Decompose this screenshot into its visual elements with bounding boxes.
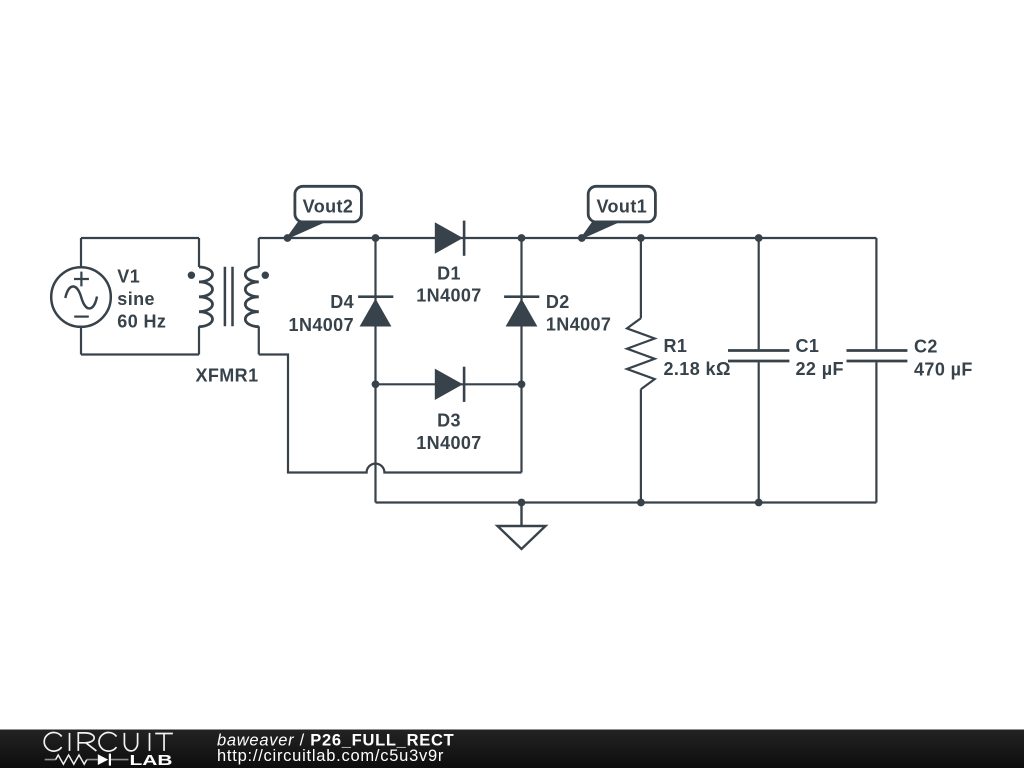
net flag Vout1: [582, 186, 656, 238]
wire secondary top stub: [258, 238, 260, 267]
transformer XFMR1 primary winding: [199, 267, 213, 327]
svg-text:C1: C1: [796, 336, 820, 356]
node D3 anode junction: [372, 380, 380, 388]
transformer primary phase dot: [188, 272, 195, 279]
wire bottom rail: [376, 501, 877, 503]
ground: [498, 503, 546, 550]
V1 plus sign: [74, 272, 89, 287]
svg-text:D3: D3: [437, 410, 461, 430]
node Vout2 junction: [284, 234, 292, 242]
node C1 top junction: [755, 234, 763, 242]
svg-text:LAB: LAB: [130, 752, 173, 768]
wire primary bottom stub: [198, 326, 200, 354]
svg-text:D1: D1: [437, 264, 461, 284]
diode D1: [435, 221, 466, 256]
wire V1 bottom: [81, 353, 199, 355]
net flag Vout2: [288, 186, 362, 238]
capacitor C1 plates: [728, 351, 789, 362]
wire C2 leads: [875, 238, 877, 503]
logo diode bar: [109, 754, 111, 766]
node C1 bottom junction: [755, 499, 763, 507]
wire D4 branch vertical: [374, 238, 376, 503]
V1 sine squiggle: [65, 286, 97, 308]
svg-text:D4: D4: [330, 292, 354, 312]
svg-text:22 µF: 22 µF: [796, 359, 844, 379]
footer bar: [0, 730, 1024, 768]
wire C1 leads: [758, 238, 760, 503]
labels: [117, 264, 973, 454]
diode D2: [504, 295, 539, 326]
svg-text:1N4007: 1N4007: [546, 315, 611, 335]
transformer core lines: [225, 267, 233, 327]
wire secondary bottom return with hop: [259, 355, 522, 473]
logo diode triangle: [98, 754, 108, 765]
capacitor C2 plates: [847, 351, 908, 362]
svg-text:2.18 kΩ: 2.18 kΩ: [664, 359, 731, 379]
node D4 cathode / top rail junction: [372, 234, 380, 242]
svg-text:470 µF: 470 µF: [914, 359, 973, 379]
V1 minus sign: [74, 316, 89, 318]
voltage source V1 circle: [51, 267, 111, 327]
svg-text:1N4007: 1N4007: [416, 433, 481, 453]
svg-text:1N4007: 1N4007: [416, 286, 481, 306]
wire top rail: [259, 237, 877, 239]
transformer secondary phase dot: [262, 272, 269, 279]
wire D2 branch vertical: [520, 238, 522, 473]
wire primary top stub: [198, 238, 200, 267]
wire D3 horizontal: [376, 383, 522, 385]
node D2 cathode / top rail junction: [518, 234, 526, 242]
diode D3: [435, 367, 466, 402]
node Vout1 junction: [578, 234, 586, 242]
svg-text:Vout2: Vout2: [303, 197, 354, 217]
svg-text:V1: V1: [117, 266, 140, 286]
svg-text:1N4007: 1N4007: [289, 315, 354, 335]
wire R1 leads: [640, 238, 642, 503]
diode D4: [358, 295, 393, 326]
wire V1 left upper: [80, 238, 82, 267]
svg-text:D2: D2: [546, 292, 570, 312]
svg-text:XFMR1: XFMR1: [195, 366, 258, 386]
resistor R1 zigzag: [627, 318, 655, 389]
svg-text:Vout1: Vout1: [596, 197, 647, 217]
wire V1 left lower: [80, 327, 82, 355]
wire V1 top: [81, 237, 199, 239]
svg-text:C2: C2: [914, 336, 938, 356]
transformer XFMR1 secondary winding: [245, 267, 259, 327]
node D3 cathode junction: [518, 380, 526, 388]
svg-text:60 Hz: 60 Hz: [117, 312, 166, 332]
node R1 bottom junction: [637, 499, 645, 507]
node R1 top junction: [637, 234, 645, 242]
logo squiggle resistor-diode: [45, 755, 129, 764]
wire secondary bottom stub: [258, 326, 260, 354]
node ground junction: [518, 499, 526, 507]
svg-text:sine: sine: [117, 289, 155, 309]
svg-text:http://circuitlab.com/c5u3v9r: http://circuitlab.com/c5u3v9r: [217, 747, 444, 765]
svg-text:R1: R1: [664, 336, 688, 356]
logo CIRCUIT drawn letters: [44, 732, 173, 751]
